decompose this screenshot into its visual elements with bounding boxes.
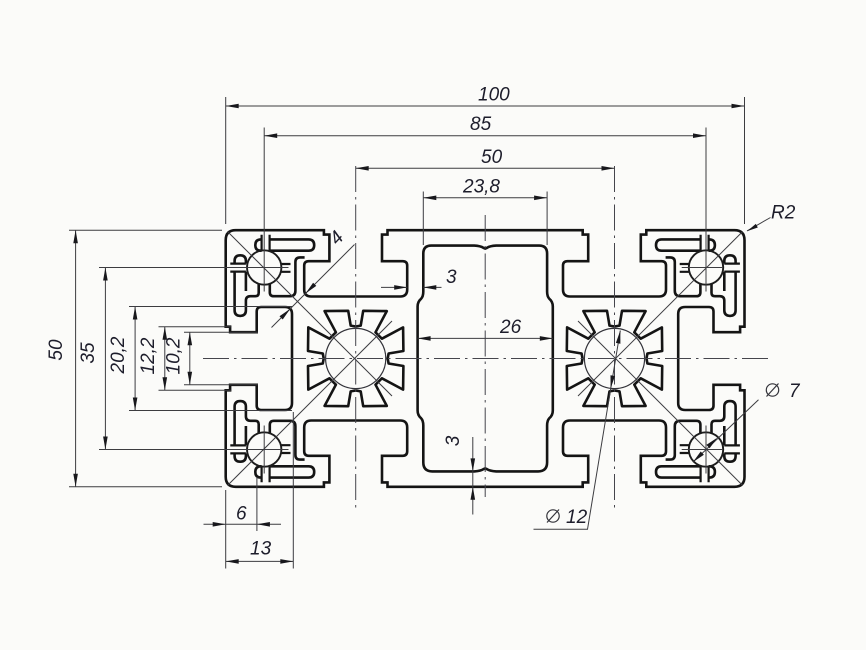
svg-text:50: 50	[46, 339, 67, 361]
svg-text:23,8: 23,8	[462, 176, 500, 197]
dimension "10,2"	[189, 332, 191, 385]
screw hole circle BR	[689, 432, 723, 466]
svg-text:85: 85	[470, 114, 492, 135]
dimension "85"	[264, 135, 706, 137]
svg-text:35: 35	[78, 342, 99, 364]
screw port slots BL	[262, 466, 270, 482]
corner channels BR	[656, 466, 715, 477]
centerline cross BR screw hole	[682, 426, 723, 474]
center slot star right	[567, 311, 662, 406]
circle d12 left	[326, 328, 386, 388]
dimension "3" bottom wall	[472, 437, 474, 515]
vertical centerline middle	[484, 215, 486, 497]
label "d7" leader	[693, 400, 759, 462]
dimension "4" diagonal wall	[272, 245, 355, 328]
screw port slots BR	[701, 466, 709, 482]
profile outer contour	[226, 230, 745, 487]
corner channels TL	[255, 239, 314, 250]
dimension "23,8"	[423, 197, 547, 199]
dimension "26"	[418, 337, 553, 339]
label "R2" leader	[747, 218, 771, 231]
horizontal centerline	[203, 358, 768, 360]
screw port slots TL	[262, 235, 270, 251]
svg-text:50: 50	[481, 147, 503, 168]
corner channels BL	[255, 466, 314, 477]
svg-text:12,2: 12,2	[138, 337, 159, 374]
dimension "12,2"	[164, 327, 166, 391]
center slot star left	[308, 311, 403, 406]
central hollow cavity	[418, 246, 553, 472]
svg-text:6: 6	[236, 504, 247, 525]
screw hole circle TL	[247, 250, 281, 284]
svg-text:3: 3	[443, 435, 464, 446]
dimension "50"	[356, 167, 615, 169]
svg-text:12: 12	[566, 507, 588, 528]
screw hole circle TR	[689, 250, 723, 284]
dimension "13"	[226, 560, 294, 562]
corner diagonal BL	[228, 321, 393, 486]
dimension "100"	[226, 105, 745, 107]
dimension "20,2"	[134, 307, 136, 411]
svg-text:26: 26	[499, 317, 522, 338]
corner diagonal TL	[228, 232, 393, 397]
svg-text:13: 13	[250, 539, 272, 560]
label "d12" leader	[534, 331, 621, 530]
centerline cross TL screw hole	[99, 128, 289, 292]
dimension "50"	[75, 230, 77, 487]
svg-text:R2: R2	[771, 203, 796, 224]
corner channels TR	[656, 239, 715, 250]
centerline cross BL screw hole	[99, 426, 289, 474]
svg-text:3: 3	[446, 267, 457, 288]
dimension "3" top wall	[381, 286, 442, 288]
corner diagonal BR	[578, 321, 743, 486]
vertical centerline slot2	[614, 166, 616, 511]
vertical centerline slot1	[355, 166, 357, 511]
corner diagonal TR	[578, 232, 743, 397]
dimension "35"	[104, 268, 106, 450]
svg-text:7: 7	[789, 381, 801, 402]
svg-text:10,2: 10,2	[164, 337, 185, 374]
screw hole circle BL	[247, 432, 281, 466]
screw port slots TR	[701, 235, 709, 251]
svg-text:20,2: 20,2	[108, 336, 129, 374]
dimension "6"	[204, 523, 282, 525]
centerline cross TR screw hole	[682, 128, 723, 292]
circle d12 right	[584, 328, 644, 388]
svg-text:100: 100	[478, 85, 510, 106]
